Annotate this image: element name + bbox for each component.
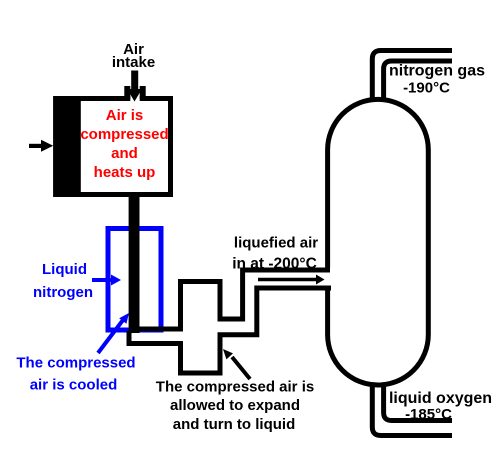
svg-text:Liquid: Liquid <box>42 261 87 278</box>
svg-text:intake: intake <box>112 54 155 71</box>
inlet stub right <box>140 86 146 99</box>
pipe: cooler to expansion chamber + chamber + outlet, upper boundary <box>139 270 330 329</box>
compressor piston (black fill) <box>53 96 81 197</box>
svg-text:liquid oxygen: liquid oxygen <box>389 390 492 407</box>
arrow: blue diagonal to cooler bottom <box>98 320 123 353</box>
arrow: into compressor from left <box>29 144 42 148</box>
svg-text:air is cooled: air is cooled <box>30 377 118 394</box>
svg-text:and turn to liquid: and turn to liquid <box>173 416 295 433</box>
label: nitrogen gas -190C <box>389 63 485 97</box>
svg-text:Air is: Air is <box>106 107 144 124</box>
svg-text:nitrogen: nitrogen <box>33 284 93 301</box>
fractionating column (outline with inlet gap on left wall) <box>328 99 429 385</box>
svg-text:compressed: compressed <box>80 126 168 143</box>
pipe: nitrogen gas outlet outer wall <box>372 51 452 101</box>
pipe: liquid oxygen outlet inner wall <box>384 386 452 421</box>
arrow: liquid nitrogen into cooler <box>92 278 112 282</box>
svg-text:liquefied air: liquefied air <box>234 235 318 252</box>
label: The compressed air is allowed to expand and turn to liquid <box>156 379 314 434</box>
svg-text:in at -200°C: in at -200°C <box>232 256 317 273</box>
svg-text:and: and <box>111 145 138 162</box>
pipe: compressor to cooler (thick bar) <box>129 195 140 333</box>
svg-text:The compressed air is: The compressed air is <box>156 379 314 396</box>
svg-text:-190°C: -190°C <box>403 80 450 97</box>
svg-text:allowed to expand: allowed to expand <box>170 397 300 414</box>
label: Liquid nitrogen <box>33 261 93 301</box>
arrow: air intake down <box>131 71 138 91</box>
svg-text:nitrogen gas: nitrogen gas <box>389 63 485 80</box>
pipe: cooler to expansion chamber + chamber + outlet, lower boundary <box>129 288 331 373</box>
label: The compressed air is cooled <box>16 355 135 394</box>
svg-text:heats up: heats up <box>94 164 156 181</box>
label: liquid oxygen -185C <box>389 390 492 423</box>
arrow: black diagonal to expansion chamber <box>232 357 250 379</box>
inlet stub left <box>124 86 130 99</box>
pipe: nitrogen gas outlet inner wall <box>384 61 452 100</box>
cooler (blue rect) <box>108 229 161 331</box>
label: liquefied air in at -200C <box>232 235 318 273</box>
arrow: liquefied air into column <box>258 278 317 282</box>
pipe: liquid oxygen outlet outer wall <box>372 384 452 436</box>
svg-text:-185°C: -185°C <box>405 406 452 423</box>
compressor box U1 <box>56 99 171 195</box>
label: Air intake <box>112 41 155 71</box>
svg-text:The compressed: The compressed <box>16 355 135 372</box>
label: Air is compressed and heats up <box>80 107 168 181</box>
gap in compressor top border <box>130 96 139 102</box>
